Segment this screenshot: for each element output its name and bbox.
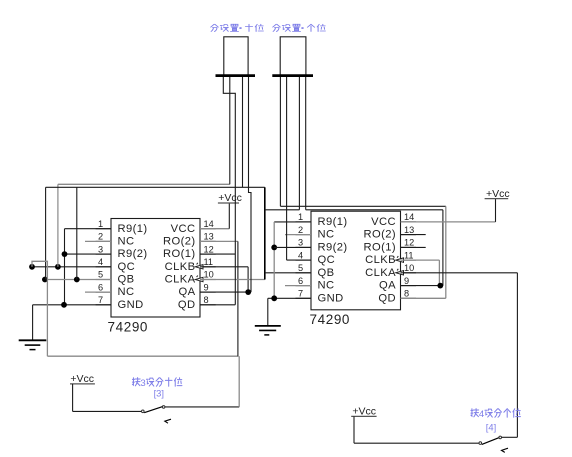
IC U1 pin 6 stub	[96, 291, 111, 293]
connector J1 body	[224, 37, 248, 76]
wire U1 pin5 QB	[45, 279, 111, 281]
IC U1 pin 5 stub	[96, 279, 111, 281]
IC U1 pin 9 stub	[200, 291, 216, 293]
wire U1 pin7 GND	[33, 304, 111, 306]
junction QC / H1 drop	[55, 264, 61, 270]
junction QC left end	[29, 264, 35, 270]
junction QA / CLKB / rail-B	[437, 283, 443, 289]
ground U2 symbol	[255, 325, 281, 327]
svg-text:3: 3	[98, 244, 103, 254]
junction QB / V76.8	[74, 277, 80, 283]
power +Vcc U2 symbol	[485, 198, 509, 200]
IC U1 CLKB clock wedge	[195, 265, 203, 269]
wire H2 QB to cascade bus	[46, 186, 265, 188]
label 按4设分个位	[471, 409, 479, 417]
wire U2 pin4 QC from J2 pin2	[287, 259, 311, 261]
svg-text:GND: GND	[318, 292, 344, 304]
svg-text:74290: 74290	[310, 312, 351, 327]
IC U1 pin 3 stub	[96, 253, 111, 255]
wire S4 left lead	[354, 442, 479, 444]
wire J1 pin4 drop	[249, 77, 252, 292]
svg-text:9: 9	[204, 282, 209, 292]
svg-text:8: 8	[404, 289, 409, 299]
wire S3 right lead	[165, 406, 239, 408]
connector J2 body	[280, 37, 306, 76]
svg-text:QB: QB	[118, 274, 135, 286]
switch S4 actuator mark	[502, 448, 509, 452]
IC U2 pin 11 stub	[401, 259, 417, 261]
IC U2 CLKA clock wedge	[396, 271, 404, 275]
svg-text:11: 11	[204, 257, 214, 267]
svg-text:CLKB: CLKB	[365, 254, 396, 266]
IC U2 pin 12 stub	[401, 246, 417, 248]
svg-text:12: 12	[204, 244, 214, 254]
svg-text:QC: QC	[118, 261, 136, 273]
svg-text:12: 12	[404, 238, 414, 248]
svg-text:3: 3	[140, 378, 145, 389]
IC U2 pin 6 stub	[296, 285, 312, 287]
wire bus vertical R9-GND x=274.2	[273, 222, 275, 298]
svg-text:QD: QD	[178, 299, 196, 311]
IC U2 pin 1 stub	[296, 221, 312, 223]
switch S3 actuator mark	[165, 419, 171, 423]
power +Vcc U1 drop	[228, 203, 230, 229]
svg-text:4: 4	[98, 257, 103, 267]
wire U2 pin6 NC stub	[285, 285, 311, 287]
svg-text:7: 7	[98, 295, 103, 305]
svg-text:9: 9	[404, 276, 409, 286]
svg-text:QD: QD	[378, 292, 396, 304]
label 按3设分十位	[132, 378, 140, 386]
wire RO(2) drop to rail	[237, 241, 239, 356]
svg-text:R9(2): R9(2)	[118, 248, 148, 260]
wire U2 pin8 QD	[401, 297, 446, 299]
wire U1 pin9 QA	[200, 291, 248, 293]
IC U2 pin 4 stub	[296, 259, 312, 261]
wire CLKA drop to switch S4	[516, 273, 518, 438]
connector J2 base bar	[272, 74, 313, 77]
svg-text:+Vcc: +Vcc	[70, 373, 94, 385]
svg-text:11: 11	[404, 250, 414, 260]
wire J2 pin3 drop	[298, 77, 300, 210]
wire U2 pin3 R9(2)	[274, 246, 311, 248]
wire U1 pin4 QC	[32, 266, 111, 268]
svg-text:QC: QC	[318, 254, 336, 266]
connector J1 分设置-十位 label	[211, 24, 219, 31]
junction QB / V45.6	[42, 277, 48, 283]
wire +Vcc S4 drop	[353, 416, 355, 443]
wire vertical x=57.9 H1 to QC	[57, 184, 59, 266]
IC U2 pin 13 stub	[401, 234, 417, 236]
wire U2 pin5 QB from bus	[265, 272, 311, 274]
svg-text:1: 1	[298, 212, 303, 222]
wire U1 pin3 R9(2)	[65, 253, 112, 255]
switch S4 lever	[482, 437, 500, 444]
power +Vcc U2 drop	[495, 199, 497, 222]
ground U1 symbol	[19, 339, 47, 341]
IC U2 pin 9 stub	[401, 285, 417, 287]
svg-text:10: 10	[204, 270, 214, 280]
svg-text:CLKA: CLKA	[365, 267, 396, 279]
switch S4 contact left	[479, 442, 482, 445]
svg-text:CLKB: CLKB	[165, 261, 196, 273]
wire rail-B down to QA	[442, 210, 444, 286]
connector J1 base bar	[216, 74, 256, 77]
wire U1 pin11 CLKB	[200, 266, 248, 268]
IC U2 pin 3 stub	[296, 246, 312, 248]
svg-text:R9(1): R9(1)	[118, 223, 148, 235]
IC U1 pin 8 stub	[200, 304, 216, 306]
svg-text:+Vcc: +Vcc	[486, 188, 510, 200]
wire U2 pin9 QA	[401, 285, 441, 287]
svg-text:R9(1): R9(1)	[318, 216, 348, 228]
svg-text:1: 1	[98, 219, 103, 229]
wire S3 up to rail	[238, 356, 240, 407]
wire rail-A down to QD	[445, 206, 447, 298]
svg-text:13: 13	[404, 225, 414, 235]
wire U1 pin14 VCC	[200, 228, 229, 230]
wire CLKB drop to QA	[247, 267, 249, 292]
wire U1 pin8 QD	[200, 304, 235, 306]
wire U2 pin12 RO(1) stub	[401, 246, 426, 248]
op IC U2 74290 body	[311, 211, 401, 310]
wire QC jog up	[32, 261, 47, 356]
wire +Vcc S3 drop	[72, 384, 74, 412]
IC U2 pin 7 stub	[296, 297, 312, 299]
wire B-left bus to J2 pin3	[265, 209, 300, 211]
switch S3 lever	[144, 406, 163, 412]
svg-text:RO(2): RO(2)	[364, 229, 396, 241]
svg-text:10: 10	[404, 263, 414, 273]
IC U1 CLKA clock wedge	[195, 277, 203, 281]
wire S3 left lead	[73, 410, 142, 412]
svg-text:R9(2): R9(2)	[318, 242, 348, 254]
svg-text:+Vcc: +Vcc	[218, 192, 242, 204]
wire bus vertical R9 to GND x=64.5	[64, 229, 66, 305]
svg-text:4: 4	[479, 409, 485, 420]
switch S3 contact left	[142, 410, 145, 413]
power +Vcc S3 symbol	[70, 383, 95, 385]
IC U2 pin 14 stub	[401, 221, 417, 223]
svg-text:RO(2): RO(2)	[163, 236, 195, 248]
svg-text:[3]: [3]	[154, 387, 164, 398]
IC U2 pin 5 stub	[296, 272, 312, 274]
wire U1 pin13 RO(2)	[200, 240, 238, 242]
wire S4 right lead	[502, 436, 518, 438]
wire J1 pin1 to QD (jog)	[223, 77, 235, 305]
junction QA / CLKB / J1 pin4	[245, 289, 251, 295]
junction U2 GND bus	[271, 295, 277, 301]
power +Vcc S4 symbol	[351, 415, 376, 417]
wire J2 pin4 drop	[305, 77, 307, 210]
ground U2 drop wire	[267, 298, 269, 326]
wire U1 pin12 RO(1) to QD net	[200, 253, 235, 255]
svg-text:4: 4	[298, 250, 303, 260]
junction U2 pin3	[271, 245, 277, 251]
wire U2 pin14 VCC	[401, 221, 496, 223]
svg-text:NC: NC	[318, 280, 335, 292]
wire B-right J2 pin4 to QA rail	[306, 209, 443, 211]
svg-text:NC: NC	[318, 229, 335, 241]
junction U1 pin3	[62, 251, 68, 257]
switch S4 contact right	[499, 436, 502, 439]
wire U1 pin10 CLKA from cascade	[200, 279, 265, 281]
wire U2 pin1 R9(1)	[274, 221, 311, 223]
svg-text:+Vcc: +Vcc	[352, 406, 376, 418]
wire J2 pin1 drop	[279, 77, 281, 206]
svg-text:RO(1): RO(1)	[364, 242, 396, 254]
svg-text:8: 8	[204, 295, 209, 305]
wire vertical x=76.8 H2 tee to QB	[76, 187, 78, 279]
IC U1 pin 14 stub	[200, 228, 216, 230]
wire U1 pin6 NC stub	[85, 291, 111, 293]
svg-text:5: 5	[98, 270, 103, 280]
switch S3 contact right	[162, 406, 165, 409]
svg-text:NC: NC	[118, 286, 135, 298]
IC U1 pin 11 stub	[200, 266, 216, 268]
svg-text:NC: NC	[118, 236, 135, 248]
svg-text:74290: 74290	[108, 320, 149, 335]
power +Vcc U1 symbol	[218, 202, 239, 204]
wire U2 pin10 CLKA	[401, 272, 518, 274]
IC U2 CLKB clock wedge	[396, 258, 404, 262]
wire U1 pin2 NC stub	[85, 240, 111, 242]
IC U2 pin 2 stub	[296, 234, 312, 236]
svg-text:2: 2	[298, 225, 303, 235]
wire J1 pin2 to H1	[229, 77, 231, 184]
svg-text:2: 2	[98, 232, 103, 242]
wire J2 pin2 drop	[286, 77, 288, 260]
wire U2 pin11 CLKB	[401, 259, 440, 261]
IC U1 pin 10 stub	[200, 279, 216, 281]
IC U1 pin 2 stub	[96, 240, 111, 242]
svg-text:6: 6	[298, 276, 303, 286]
wire A-line J2 pin1 to QD rail	[280, 205, 445, 207]
wire CLKB drop to QA	[438, 260, 440, 286]
wire U1 pin1 R9(1)	[65, 228, 112, 230]
IC U1 pin 1 stub	[96, 228, 111, 230]
IC U1 pin 4 stub	[96, 266, 111, 268]
IC U2 pin 8 stub	[401, 297, 417, 299]
svg-text:[4]: [4]	[486, 421, 496, 432]
svg-text:RO(1): RO(1)	[163, 248, 195, 260]
svg-text:QA: QA	[179, 286, 196, 298]
svg-text:5: 5	[298, 263, 303, 273]
svg-text:CLKA: CLKA	[165, 274, 196, 286]
ground U1 drop wire	[32, 305, 34, 340]
svg-text:7: 7	[298, 289, 303, 299]
svg-text:QA: QA	[379, 280, 396, 292]
svg-text:GND: GND	[118, 299, 144, 311]
wire J1 pin3 to H2	[242, 77, 244, 187]
IC U1 pin 12 stub	[200, 253, 216, 255]
junction GND bus	[61, 302, 67, 308]
svg-text:3: 3	[298, 238, 303, 248]
IC U2 pin 10 stub	[401, 272, 417, 274]
wire vertical x=45.6 H2 to QB	[45, 187, 47, 279]
wire cascade bus vertical x=264.8	[264, 187, 266, 279]
wire bottom rail y=356	[47, 355, 238, 357]
IC U1 pin 7 stub	[96, 304, 111, 306]
connector J2 分设置-个位 label	[273, 24, 281, 31]
wire U2 pin7 GND	[268, 297, 311, 299]
wire U2 pin2 NC stub	[285, 234, 311, 236]
wire H1 QC to connector J1 pin2	[58, 183, 230, 185]
svg-text:6: 6	[98, 282, 103, 292]
svg-text:14: 14	[204, 219, 214, 229]
svg-text:14: 14	[404, 212, 414, 222]
IC U1 pin 13 stub	[200, 240, 216, 242]
op IC U1 74290 body	[111, 219, 200, 318]
svg-text:VCC: VCC	[371, 216, 396, 228]
svg-text:13: 13	[204, 232, 214, 242]
wire U2 pin13 RO(2) stub	[401, 234, 426, 236]
svg-text:VCC: VCC	[171, 223, 196, 235]
svg-text:QB: QB	[318, 267, 335, 279]
